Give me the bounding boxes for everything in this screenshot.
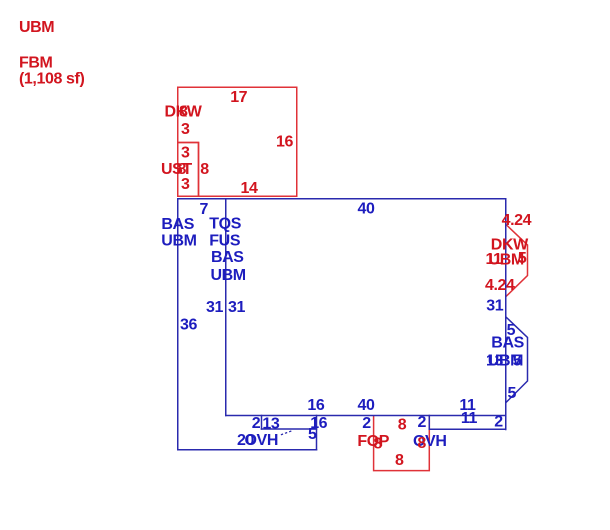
blue OVH-right rectangle bottom edge (429, 428, 505, 430)
svg-text:FUS: FUS (209, 233, 241, 250)
svg-text:BAS: BAS (491, 335, 524, 352)
svg-text:31: 31 (228, 299, 245, 316)
red DKW deck outline (178, 87, 297, 196)
blue right wall (505, 199, 507, 430)
blue OVH-right rectangle left edge (428, 416, 430, 430)
svg-text:(1,108 sf): (1,108 sf) (19, 71, 84, 88)
svg-text:UBM: UBM (161, 233, 196, 250)
svg-text:17: 17 (230, 89, 247, 106)
blue main bottom wall (226, 415, 506, 417)
svg-text:16: 16 (276, 134, 293, 151)
svg-text:5: 5 (308, 426, 317, 443)
svg-text:5: 5 (513, 353, 522, 370)
svg-text:UBM: UBM (19, 19, 54, 36)
svg-text:40: 40 (358, 200, 375, 217)
svg-text:BAS: BAS (161, 216, 194, 233)
blue jog horizontal (262, 428, 317, 430)
blue OVH bottom wall (178, 449, 317, 451)
svg-text:8: 8 (200, 161, 209, 178)
blue top wall (178, 198, 506, 200)
svg-text:5: 5 (518, 250, 527, 267)
svg-text:OVH: OVH (245, 432, 278, 449)
red UST rectangle (178, 143, 199, 197)
svg-text:TQS: TQS (209, 216, 241, 233)
svg-text:14: 14 (241, 180, 258, 197)
blue dotted leader line (282, 430, 294, 434)
svg-text:40: 40 (358, 397, 375, 414)
blue divider wall (225, 199, 227, 416)
svg-text:8: 8 (417, 435, 426, 452)
svg-text:5: 5 (508, 385, 517, 402)
red FOP porch rectangle (374, 416, 430, 471)
svg-text:FBM: FBM (19, 54, 53, 71)
svg-text:8: 8 (398, 417, 407, 434)
svg-text:2: 2 (494, 414, 503, 431)
svg-text:13: 13 (262, 415, 279, 432)
blue jog vertical (261, 416, 263, 430)
svg-text:2: 2 (418, 414, 427, 431)
svg-text:16: 16 (307, 397, 324, 414)
svg-text:3: 3 (181, 176, 190, 193)
svg-text:2: 2 (252, 415, 261, 432)
svg-text:2: 2 (362, 415, 371, 432)
svg-text:8: 8 (374, 435, 383, 452)
svg-text:4.24: 4.24 (485, 277, 515, 294)
blue BAS/UBM right bump (506, 317, 528, 403)
svg-text:7: 7 (200, 201, 209, 218)
svg-text:3: 3 (181, 121, 190, 138)
svg-text:31: 31 (486, 298, 503, 315)
svg-text:8: 8 (395, 452, 404, 469)
svg-text:31: 31 (206, 299, 223, 316)
svg-text:4.24: 4.24 (502, 212, 532, 229)
svg-text:36: 36 (180, 316, 197, 333)
blue OVH right vertical (316, 416, 318, 450)
svg-text:UBM: UBM (211, 267, 246, 284)
svg-text:8: 8 (179, 104, 188, 121)
svg-text:11: 11 (461, 410, 478, 427)
svg-text:BAS: BAS (211, 249, 244, 266)
blue left wall (177, 199, 179, 450)
red DKW/UBM right bump (506, 225, 528, 297)
svg-text:3: 3 (181, 145, 190, 162)
